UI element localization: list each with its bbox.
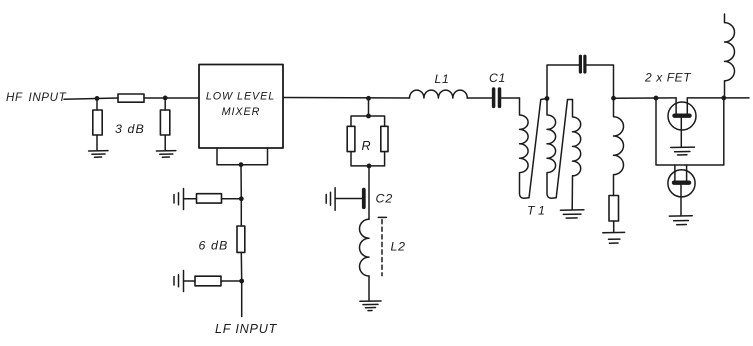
core dashed line of L2 — [381, 220, 383, 276]
svg-text:L1: L1 — [435, 72, 450, 86]
transistor Q2 source lead — [680, 185, 682, 216]
transistor Q1 source lead — [680, 118, 682, 147]
transformer T1 winding 1 — [520, 98, 548, 198]
resistor R5 series 6dB — [237, 226, 245, 252]
wire mixer bottom stubs — [217, 148, 268, 165]
resistor R4 upper 6dB shunt — [197, 194, 222, 203]
node junction dot T1 tap A — [545, 96, 550, 101]
resistor R left of pair — [347, 126, 355, 151]
mixer U1 box — [199, 65, 283, 149]
ground below R2 — [89, 151, 108, 158]
wire R1 to mixer — [144, 97, 199, 99]
node junction dot right of R1 — [163, 96, 168, 101]
inductor L1 — [410, 90, 468, 98]
wire ground to R6 — [184, 280, 196, 282]
node junction dot top of R pair — [366, 114, 371, 119]
node junction dot FET right — [721, 96, 726, 101]
ground rotated upper LF pad — [174, 189, 184, 210]
wire R4 to node — [222, 198, 242, 200]
svg-text:R: R — [362, 139, 371, 153]
node junction dot main wire at R — [366, 96, 371, 101]
capacitor C1 plates — [494, 89, 500, 106]
wire LF input lead — [241, 281, 243, 317]
svg-text:LF INPUT: LF INPUT — [215, 322, 278, 336]
wire down from mixer node — [240, 165, 242, 199]
capacitor C top plates — [580, 56, 585, 72]
wire L2 to ground — [368, 276, 370, 301]
svg-text:2 x FET: 2 x FET — [644, 71, 692, 85]
ground below R3 — [156, 151, 175, 158]
svg-text:C2: C2 — [376, 191, 394, 205]
ground below L2 — [360, 301, 381, 311]
inductor T1 secondary winding 4 — [614, 98, 624, 195]
wire R pair top rail — [351, 116, 385, 126]
transistor Q1 top stubs — [676, 98, 687, 114]
wire L1 to C1 — [467, 97, 492, 99]
node junction dot upper 6dB — [239, 196, 244, 201]
wire node B to FET section — [614, 97, 677, 99]
node junction dot left of R1 — [95, 96, 100, 101]
wire node to R5 — [240, 199, 242, 226]
wire top capacitor loop left — [547, 65, 579, 99]
inductor L2 — [360, 219, 370, 276]
wire down to R pair — [368, 98, 370, 116]
resistor R6 lower 6dB shunt — [195, 276, 221, 286]
wire mixer output to L1 — [283, 97, 410, 100]
core top cap of L2 — [378, 216, 386, 218]
resistor R1 series 3dB — [118, 94, 144, 102]
wire R5 to lower node — [240, 252, 242, 281]
transformer T1 winding 3 — [572, 100, 581, 210]
inductor drain choke top right — [725, 14, 735, 98]
wire R6 to node — [221, 280, 242, 282]
wire FET lower rail left — [656, 98, 724, 165]
node junction dot lower 6dB — [239, 279, 244, 284]
node junction dot below mixer — [239, 162, 244, 167]
transformer T1 winding 2 — [547, 99, 573, 199]
wire resistor to ground — [613, 221, 615, 232]
svg-text:LOW LEVEL: LOW LEVEL — [206, 91, 275, 103]
resistor below winding 4 — [609, 196, 619, 222]
svg-text:C1: C1 — [489, 71, 506, 85]
node junction dot FET left — [654, 96, 659, 101]
svg-text:HF INPUT: HF INPUT — [6, 91, 67, 104]
wire down to L2 — [368, 166, 370, 219]
ground below resistor — [603, 232, 625, 243]
ground below T1 winding 3 — [560, 210, 584, 218]
svg-text:MIXER: MIXER — [222, 106, 261, 118]
resistor R right of pair — [381, 126, 388, 151]
node junction dot T1 secondary top — [611, 96, 616, 101]
transistor Q2 top stubs — [675, 165, 687, 181]
wire HF input to R1 — [64, 98, 118, 99]
capacitor C2 plate — [362, 190, 366, 208]
wire top capacitor loop right — [586, 65, 613, 98]
wire ground to R4 — [184, 198, 197, 200]
resistor R2 shunt 3dB left — [93, 98, 102, 150]
ground below Q2 — [669, 216, 692, 225]
svg-text:3 dB: 3 dB — [115, 122, 145, 136]
transistor Q2 electrode bar — [674, 180, 689, 184]
transistor Q1 FET circle — [668, 102, 696, 130]
svg-text:T1: T1 — [527, 204, 548, 218]
ground below Q1 — [671, 147, 695, 155]
ground rotated lower LF pad — [174, 271, 184, 292]
wire R pair bottom rail — [351, 152, 385, 166]
ground rotated at C2 — [326, 188, 335, 211]
transistor Q1 electrode bar — [675, 113, 690, 117]
resistor R3 shunt 3dB right — [160, 98, 169, 151]
svg-text:L2: L2 — [391, 239, 406, 253]
wire ground to C2 — [335, 198, 362, 200]
wire FET right segment — [687, 97, 749, 99]
svg-text:6 dB: 6 dB — [199, 239, 229, 253]
node junction dot bottom of R pair — [367, 164, 372, 169]
wire C1 to T1 — [502, 97, 520, 99]
transistor Q2 FET circle — [668, 170, 695, 197]
